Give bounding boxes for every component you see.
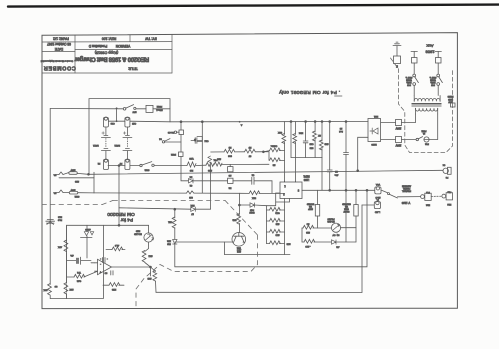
svg-text:Aux: Aux (427, 44, 434, 49)
resistor R23 on rail (58, 225, 68, 298)
svg-text:230Va: 230Va (430, 81, 435, 83)
wire bottom loop outer (156, 205, 362, 293)
resistor R14 vertical (293, 122, 303, 183)
wire main dc bus (170, 121, 368, 123)
wire (402, 114, 416, 123)
connector E24 b (442, 190, 453, 205)
resistor R10a (263, 145, 284, 152)
opamp U2 (95, 259, 112, 274)
capacitor C2 (233, 173, 272, 193)
zener ZD1 row (118, 166, 120, 226)
resistor R25 (67, 271, 98, 281)
wire rail c6 (345, 122, 347, 153)
svg-text:2K: 2K (318, 134, 321, 136)
svg-text:BAT.1: BAT.1 (92, 144, 98, 147)
svg-text:2u2: 2u2 (338, 130, 342, 132)
diode D5 (239, 203, 266, 213)
wire (413, 85, 415, 95)
transformer T1 core (412, 103, 442, 105)
svg-text:D6-C6: D6-C6 (167, 131, 174, 133)
svg-text:41.8: 41.8 (114, 244, 119, 246)
link switch LK1 (406, 74, 419, 85)
svg-text:-: - (100, 262, 101, 265)
svg-text:. P4 for OM REG091 only: . P4 for OM REG091 only (279, 89, 341, 95)
connector PL3 1958 (411, 52, 417, 64)
connector B (194, 137, 202, 143)
wire row152 (211, 151, 224, 153)
svg-text:WHEN: WHEN (430, 78, 436, 80)
fuse clip C16 (103, 117, 114, 127)
zener ZD3 (181, 157, 228, 187)
svg-text:47u: 47u (334, 173, 338, 175)
svg-text:K7: K7 (190, 212, 193, 214)
resistor R6 (206, 162, 214, 171)
svg-text:Production D: Production D (88, 44, 107, 48)
svg-text:P4 for: P4 for (120, 217, 133, 222)
fuse FS1 (146, 105, 163, 113)
wire input box top (89, 99, 170, 175)
svg-text:1S: 1S (228, 174, 231, 176)
svg-text:D2: D2 (228, 186, 232, 188)
svg-text:X11: X11 (167, 220, 172, 222)
resistor ladder R19 (267, 229, 285, 235)
mains connector L (53, 169, 94, 182)
wire (429, 114, 437, 140)
svg-text:1R0: 1R0 (207, 169, 212, 171)
svg-text:5: 5 (297, 189, 299, 192)
wire collector chain (238, 193, 240, 214)
svg-text:8A: 8A (53, 191, 56, 194)
svg-text:OM REG200: OM REG200 (107, 211, 135, 217)
link switch LK2 (430, 74, 443, 85)
svg-text:0.22: 0.22 (76, 279, 81, 281)
dashed partition REG200 (42, 200, 258, 308)
wire (196, 164, 206, 166)
dashed enclosure 1958 psu (391, 58, 453, 153)
svg-text:(Kopp CS315): (Kopp CS315) (95, 51, 118, 55)
svg-text:BAT.1: BAT.1 (114, 144, 120, 147)
mains label connector (447, 95, 455, 107)
fuse F3 (119, 159, 130, 170)
junction (263, 151, 265, 153)
resistor ladder R17 (267, 207, 285, 213)
transformer T1 secondary (414, 98, 440, 101)
capacitor C9 (100, 258, 108, 263)
svg-text:L-NO: L-NO (375, 211, 381, 213)
svg-text:1R5F: 1R5F (307, 208, 312, 210)
wire (255, 151, 269, 153)
svg-text:ZD2: ZD2 (166, 239, 171, 241)
resistor R15 vertical (313, 122, 321, 158)
svg-text:TR2: TR2 (236, 247, 241, 249)
capacitor C14 (191, 138, 209, 144)
resistor R27 vertical (64, 283, 73, 295)
switch SW2 (140, 162, 154, 171)
switch SW3 (416, 137, 423, 141)
svg-text:C15: C15 (131, 122, 136, 124)
lamp LP1 (442, 163, 451, 177)
earth connector E (394, 56, 401, 69)
transformer T1 primary (416, 108, 438, 111)
svg-text:08 October 1997: 08 October 1997 (47, 42, 71, 46)
resistor R21 (239, 191, 284, 199)
svg-text:47u: 47u (70, 254, 73, 256)
svg-text:M04: M04 (298, 131, 303, 133)
svg-text:W3: W3 (309, 205, 312, 207)
svg-text:DW2: DW2 (170, 153, 176, 155)
node A on bus (239, 121, 241, 123)
svg-text:FS2: FS2 (424, 143, 429, 145)
resistor R28 vertical (43, 284, 57, 299)
svg-text:250V: 250V (70, 188, 75, 190)
wire ic out (302, 189, 375, 191)
opamp sub box (67, 225, 149, 298)
wire resistor up (208, 156, 218, 209)
wire bottom loop inner (175, 190, 367, 266)
resistor R16 vertical (319, 122, 328, 158)
earth ground symbol top right (393, 42, 401, 56)
switch SW4 (158, 135, 181, 153)
svg-text:1R: 1R (189, 175, 192, 177)
wire earth drop (49, 109, 51, 285)
svg-text:230V: 230V (395, 144, 401, 147)
junction node A (180, 121, 182, 123)
svg-text:P8: P8 (445, 176, 448, 178)
svg-text:ALIGNE IN: ALIGNE IN (401, 184, 411, 187)
zener ZD2 (166, 239, 177, 266)
meter row resistor 11B (302, 222, 331, 233)
svg-text:E24: E24 (425, 203, 430, 205)
svg-text:JUMP in: JUMP in (430, 76, 437, 78)
svg-text:PL3: PL3 (447, 190, 451, 192)
svg-text:240V: 240V (70, 169, 75, 171)
svg-text:C13: C13 (309, 143, 314, 145)
svg-text:OV: OV (332, 233, 336, 235)
resistor R5 (187, 157, 196, 171)
svg-text:230V: 230V (395, 127, 401, 130)
diode pair D1 D2 (81, 225, 94, 258)
resistor ladder R18 (267, 218, 285, 224)
svg-text:47K: 47K (58, 246, 62, 248)
svg-text:VERSION: VERSION (115, 44, 130, 48)
resistor R13 vertical (278, 122, 286, 183)
svg-text:8A3: 8A3 (188, 196, 192, 199)
resistor R29 below led (142, 242, 152, 267)
wire base (175, 241, 232, 243)
junction (150, 266, 152, 268)
svg-text:FUSE: FUSE (421, 130, 427, 132)
svg-text:V 1MS: V 1MS (402, 201, 411, 205)
svg-text:01Q: 01Q (275, 211, 279, 213)
junctions on bus (290, 121, 292, 123)
wire rail c5 (329, 122, 331, 171)
svg-text:C452a: C452a (270, 145, 277, 147)
wire (130, 165, 140, 167)
wire gather (291, 157, 322, 159)
resistor R24 feedback (106, 244, 125, 251)
svg-text:1958: 1958 (425, 50, 435, 55)
capacitor C8 electrolytic (67, 254, 91, 264)
svg-text:R8: R8 (228, 146, 232, 148)
wire ic bottom pin (276, 199, 290, 203)
svg-text:- 11C: - 11C (305, 245, 311, 247)
svg-text:PAGE: 1/2: PAGE: 1/2 (53, 37, 69, 41)
wire (154, 165, 187, 167)
resistor R8 (224, 146, 235, 156)
svg-text:10K: 10K (43, 288, 47, 290)
svg-text:-C2: -C2 (336, 246, 340, 248)
wire (381, 139, 396, 141)
svg-text:C2: C2 (189, 184, 192, 186)
svg-text:51K: 51K (252, 197, 256, 199)
resistor R7 (214, 157, 222, 166)
svg-text:R9: R9 (248, 146, 252, 148)
wire plus to switch (382, 190, 388, 193)
svg-text:2C: 2C (306, 222, 309, 224)
svg-text:A: A (240, 123, 242, 126)
wire dotted (431, 195, 442, 197)
relay contact D6-C6 (167, 122, 183, 135)
wire minus (362, 204, 374, 206)
resistor R30 (147, 267, 157, 292)
resistor R26 (103, 283, 124, 290)
svg-text:3Q: 3Q (336, 233, 339, 235)
capacitor C5 (327, 170, 338, 190)
junction (88, 173, 90, 175)
svg-text:GROUND: GROUND (342, 202, 351, 204)
svg-text:12K: 12K (69, 288, 73, 290)
svg-text:3C: 3C (104, 271, 107, 273)
wire (402, 139, 417, 141)
connector S2 (228, 178, 233, 188)
resistor R22 (232, 214, 241, 233)
svg-text:0R22: 0R22 (344, 208, 349, 210)
resistor R10b (269, 152, 285, 166)
svg-text:SW2: SW2 (74, 195, 80, 197)
svg-text:NO-10B: NO-10B (327, 220, 335, 222)
wire bus drops (305, 122, 307, 142)
switch SW1 (123, 105, 136, 113)
svg-text:WHEN: WHEN (406, 78, 412, 80)
svg-text:H7B: H7B (111, 288, 116, 290)
svg-text:1K0: 1K0 (74, 180, 79, 182)
wire (398, 196, 421, 198)
svg-text:C2: C2 (251, 173, 254, 175)
svg-text:C16: C16 (110, 122, 115, 124)
svg-text:TP2: TP2 (76, 271, 81, 273)
svg-text:PL2: PL2 (425, 191, 429, 193)
svg-text:MAINS: MAINS (447, 95, 453, 98)
connector E24 a (421, 191, 432, 206)
svg-text:B250: B250 (371, 143, 377, 145)
fuse clip C15 (125, 117, 136, 127)
wire (153, 108, 170, 110)
svg-text:11B: 11B (306, 231, 310, 233)
svg-text:1K4: 1K4 (148, 254, 153, 256)
svg-text:BR1: BR1 (373, 115, 378, 117)
capacitor C13 (303, 141, 313, 158)
svg-text:V8A: V8A (375, 183, 380, 186)
connector PL4 1958 (435, 52, 441, 64)
svg-text:RED: RED (135, 230, 140, 232)
svg-text:21B: 21B (286, 243, 290, 245)
wire battery row (108, 165, 125, 167)
resistor R11 vertical (167, 209, 176, 239)
svg-text:REF1: REF1 (303, 175, 310, 178)
title block (42, 35, 172, 74)
connector CON2 230V (395, 120, 401, 130)
wire ic left pin (267, 193, 281, 244)
svg-text:LEAD: LEAD (447, 98, 452, 101)
wire (437, 63, 439, 74)
svg-text:606: 606 (227, 154, 231, 156)
svg-text:1K8: 1K8 (147, 277, 152, 279)
bridge rectifier BR1 (368, 115, 381, 145)
svg-text:C14: C14 (204, 140, 209, 142)
resistor ladder R20 (267, 241, 291, 245)
svg-text:REV: 100: REV: 100 (102, 37, 117, 41)
led LED1 (134, 225, 154, 242)
svg-text:P4-0: P4-0 (58, 218, 62, 220)
transistor TR2 (232, 233, 246, 252)
wire ladder rail (284, 199, 286, 255)
ammeter M1 (327, 217, 356, 235)
svg-text:COOMBER: COOMBER (43, 65, 76, 71)
battery BAT1 (92, 127, 110, 160)
svg-text:Coomber Electronic Equipment L: Coomber Electronic Equipment Ltd (40, 59, 73, 62)
battery BAT2 (114, 127, 132, 160)
svg-text:TITLE:: TITLE: (128, 67, 138, 71)
wire rail (201, 122, 203, 193)
svg-text:FUSE: FUSE (156, 105, 162, 107)
connector PL1 +BAT (375, 183, 381, 198)
wire clip link (108, 120, 125, 122)
wire (222, 163, 269, 165)
connector S1 (228, 164, 233, 176)
connector CON3 230V (395, 137, 401, 147)
svg-text:500M: 500M (249, 211, 254, 213)
wire row193 (94, 192, 187, 194)
svg-text:99: 99 (248, 154, 251, 156)
capacitor C6 (338, 127, 348, 242)
svg-text:PE ADJ: PE ADJ (328, 217, 335, 220)
svg-text:2B: 2B (272, 164, 275, 166)
svg-text:L200: L200 (303, 178, 309, 181)
wire (136, 108, 146, 110)
wire inputs (91, 262, 95, 264)
resistor 0R22 wirewound (342, 190, 359, 242)
page frame (42, 33, 457, 309)
svg-text:REG200 & 1958 Batt Charger: REG200 & 1958 Batt Charger (74, 56, 149, 62)
svg-text:E24: E24 (447, 203, 452, 205)
mains connector N (53, 172, 94, 197)
scan edge bar (8, 5, 499, 7)
svg-text:5GGW: 5GGW (343, 210, 349, 212)
svg-text:P81: P81 (213, 159, 218, 161)
connector PL2 -BAT (374, 198, 380, 213)
wire (235, 151, 245, 153)
diode D7 (332, 240, 357, 248)
wire bridge lower (358, 137, 368, 170)
svg-text:230Va: 230Va (406, 81, 411, 83)
relay coil DW2 (170, 152, 183, 157)
svg-text:313: 313 (309, 147, 313, 149)
svg-text:BY: TW: BY: TW (144, 36, 156, 40)
svg-text:R2R: R2R (190, 204, 195, 206)
svg-text:8.0: 8.0 (54, 285, 58, 287)
svg-text:PRATIEL: PRATIEL (403, 187, 410, 190)
resistor 1R5F wirewound (306, 190, 320, 228)
wire ic pins (284, 181, 286, 182)
svg-text:VD5: VD5 (189, 157, 194, 159)
svg-text:+: + (99, 270, 101, 273)
ground symbol GND (46, 215, 62, 224)
svg-text:JUMP in: JUMP in (406, 76, 413, 78)
svg-text:1B-C: 1B-C (375, 196, 380, 198)
svg-text:NO-LED: NO-LED (134, 232, 142, 234)
svg-text:2: 2 (283, 193, 285, 196)
svg-text:8A: 8A (53, 173, 56, 176)
svg-text:11C: 11C (275, 233, 279, 235)
capacitor C10 (111, 271, 113, 275)
svg-text:1: 1 (284, 185, 286, 188)
resistor R9 (245, 146, 256, 156)
svg-text:B1/8: B1/8 (58, 215, 62, 217)
svg-text:W3: W3 (345, 205, 348, 207)
svg-text:RG: RG (190, 169, 194, 171)
switch V1MS (388, 184, 411, 204)
wire (413, 63, 415, 74)
junction (329, 189, 331, 191)
svg-text:F2: F2 (97, 162, 100, 164)
svg-text:23: 23 (339, 127, 342, 129)
svg-text:SW2: SW2 (144, 168, 150, 170)
svg-text:C4: C4 (442, 163, 445, 165)
svg-text:2A: 2A (422, 132, 425, 135)
wire (381, 122, 396, 124)
junction (174, 208, 176, 210)
lamp line (89, 170, 444, 174)
wire (437, 85, 439, 95)
svg-text:F3: F3 (119, 162, 122, 164)
svg-text:56K: 56K (278, 131, 282, 133)
junction node B (201, 121, 203, 123)
svg-text:DATE: DATE (55, 47, 63, 51)
junction (118, 224, 120, 226)
svg-text:S4: S4 (158, 137, 161, 139)
crimp joint W1 (187, 191, 194, 194)
zener diode ZD1 (190, 204, 211, 214)
fuse FS2 (421, 130, 429, 145)
svg-text:11B: 11B (275, 222, 279, 224)
svg-text:1K2: 1K2 (236, 249, 241, 251)
wire opamp out (112, 267, 151, 276)
svg-text:P4D: P4D (249, 208, 253, 210)
svg-text:44356: 44356 (85, 228, 90, 230)
svg-text:2/0J: 2/0J (133, 110, 137, 112)
fuse F2 (97, 159, 108, 170)
svg-text:1K6: 1K6 (324, 143, 329, 145)
svg-text:WOUND: WOUND (306, 202, 314, 204)
regulator IC U1 L200 (280, 175, 310, 199)
lower row resistor 11C (302, 228, 332, 247)
note underline mark (335, 95, 343, 97)
svg-text:PARALLEL: PARALLEL (402, 190, 411, 193)
wire mains feed (50, 108, 123, 110)
svg-text:2K2: 2K2 (232, 219, 237, 221)
wire emitter (224, 242, 290, 255)
svg-text:5V6: 5V6 (166, 242, 170, 244)
